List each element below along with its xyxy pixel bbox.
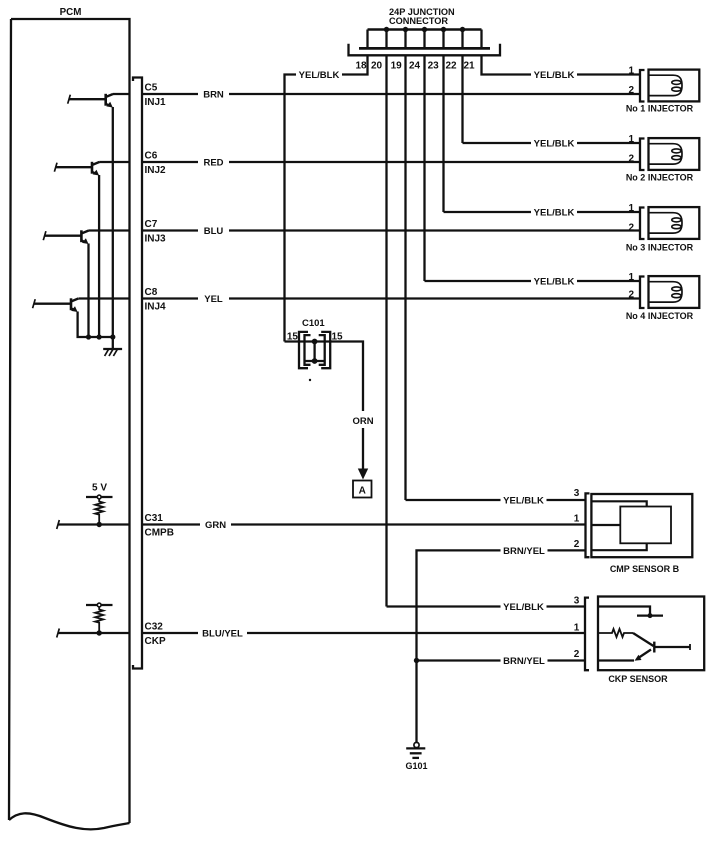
injector 4 body — [649, 276, 700, 308]
label CKP — [145, 636, 166, 647]
label 15 right — [332, 331, 344, 342]
label C7 — [145, 219, 158, 230]
wire Q3 emitter — [87, 244, 89, 338]
label 3 CMP — [574, 488, 580, 499]
wire pin19 drop — [404, 55, 406, 500]
wire pin23 to injector 3 pin 1 — [444, 211, 641, 213]
svg-text:24: 24 — [409, 61, 421, 72]
svg-text:C8: C8 — [145, 287, 158, 298]
injector 3 body — [649, 207, 700, 239]
svg-text:C6: C6 — [145, 151, 158, 162]
svg-text:INJ1: INJ1 — [145, 97, 167, 108]
wire pin24 drop — [423, 55, 425, 281]
svg-text:No 3 INJECTOR: No 3 INJECTOR — [626, 243, 694, 253]
label 1 CMP — [574, 514, 580, 525]
svg-text:23: 23 — [428, 61, 440, 72]
wire pin21 to injector 1 pin 1 — [482, 55, 641, 74]
CKP sensor connector bracket — [585, 598, 589, 671]
PCM box — [9, 19, 130, 829]
label C8 — [145, 287, 158, 298]
label ORN — [352, 416, 373, 427]
5V terminal circle C32 — [97, 603, 101, 607]
junction dot bus pin23 — [441, 27, 446, 32]
label INJ2 — [145, 165, 167, 176]
svg-text:No 1 INJECTOR: No 1 INJECTOR — [626, 104, 694, 114]
svg-text:22: 22 — [445, 61, 457, 72]
CKP pickup element — [598, 633, 690, 661]
CKP sensor body — [598, 597, 704, 671]
wire BLU/YEL to CKP sensor pin 1 — [142, 632, 585, 634]
wire emitter rail — [78, 312, 113, 338]
svg-text:2: 2 — [628, 85, 634, 96]
svg-text:C7: C7 — [145, 219, 158, 230]
24P connector stub pin20 — [385, 30, 387, 49]
label BRN/YEL CKP — [501, 654, 548, 668]
svg-text:CMPB: CMPB — [145, 528, 174, 539]
label C32 — [145, 622, 164, 633]
CMP sensor B body — [591, 494, 692, 557]
wire pin20 drop — [385, 55, 387, 606]
svg-text:20: 20 — [371, 61, 383, 72]
svg-text:1: 1 — [574, 514, 580, 525]
24P junction connector bus bar — [368, 28, 482, 30]
injector 1 connector bracket — [640, 70, 645, 102]
24P connector stub pin24 — [423, 30, 425, 49]
injector 1 pin labels — [628, 66, 634, 96]
label CMPB — [145, 528, 174, 539]
injector 2 body — [649, 138, 700, 170]
label YEL/BLK row4 — [531, 274, 577, 288]
svg-text:ORN: ORN — [352, 416, 373, 427]
wire C7 BLU to injector 3 pin 2 — [142, 229, 640, 231]
wire BRN/YEL to CMP sensor pin 2 — [417, 550, 586, 660]
wire pin19 to CMP sensor pin 3 — [406, 499, 586, 501]
label CMP SENSOR B — [610, 564, 680, 574]
label BRN/YEL CMP — [501, 543, 548, 557]
svg-text:CMP SENSOR B: CMP SENSOR B — [610, 564, 680, 574]
wire pin18 drop to YEL/BLK left — [285, 55, 368, 341]
ground G101 — [406, 742, 425, 758]
svg-text:2: 2 — [574, 539, 580, 550]
junction dot BRN/YEL CKP — [414, 658, 419, 663]
wire C101 entry — [285, 340, 315, 342]
svg-text:BLU/YEL: BLU/YEL — [202, 629, 243, 640]
svg-text:C101: C101 — [302, 318, 325, 329]
label YEL — [198, 292, 229, 306]
label 5 V — [92, 483, 107, 494]
tick C31 left — [57, 520, 60, 529]
svg-text:1: 1 — [628, 272, 634, 283]
PCM connector bracket — [133, 78, 142, 669]
label No 3 INJECTOR — [626, 243, 694, 253]
wire pin22 drop — [461, 55, 463, 143]
connector C101 — [299, 332, 330, 368]
24P connector stub pin18 — [366, 30, 368, 49]
label 1 CKP — [574, 623, 580, 634]
label 2 CMP — [574, 539, 580, 550]
junction dot C101 bottom — [312, 358, 318, 364]
injector 4 pin labels — [628, 272, 634, 300]
wire GRN to CMP sensor pin 1 — [142, 523, 586, 525]
svg-text:19: 19 — [391, 61, 403, 72]
transistor Q4 — [33, 298, 79, 312]
svg-text:No 2 INJECTOR: No 2 INJECTOR — [626, 173, 694, 183]
svg-text:No 4 INJECTOR: No 4 INJECTOR — [626, 311, 694, 321]
wire BRN/YEL to CKP sensor pin 2 — [417, 659, 586, 661]
label No 4 INJECTOR — [626, 311, 694, 321]
wire C31 CMPB internal — [58, 523, 130, 525]
24P connector stub pin21 — [480, 30, 482, 49]
svg-text:3: 3 — [574, 596, 580, 607]
label No 2 INJECTOR — [626, 173, 694, 183]
wire C101 exit to A — [315, 342, 363, 412]
label A — [359, 485, 366, 496]
label pin 18 — [355, 61, 367, 72]
svg-text:1: 1 — [628, 134, 634, 145]
junction dot R2 to CKP wire — [97, 630, 102, 635]
label CKP SENSOR — [608, 674, 668, 684]
svg-text:YEL/BLK: YEL/BLK — [534, 70, 575, 81]
junction dot rail-Q1 — [110, 334, 115, 339]
svg-text:BRN/YEL: BRN/YEL — [503, 546, 545, 557]
label pin 22 — [445, 61, 457, 72]
svg-text:YEL/BLK: YEL/BLK — [534, 208, 575, 219]
svg-text:2: 2 — [628, 153, 634, 164]
svg-text:GRN: GRN — [205, 520, 226, 531]
label BLU — [198, 224, 229, 238]
injector 3 connector bracket — [640, 208, 645, 240]
label YEL/BLK row2 — [531, 136, 577, 150]
injector 4 connector bracket — [640, 277, 645, 309]
svg-text:BRN/YEL: BRN/YEL — [503, 656, 545, 667]
svg-text:2: 2 — [628, 289, 634, 300]
transistor Q2 — [54, 162, 99, 176]
label BLU/YEL — [198, 626, 247, 640]
junction dot rail-Q3 — [86, 334, 91, 339]
resistor R2 pullup C32 — [95, 607, 103, 633]
CKP coil resistor — [598, 629, 633, 637]
svg-text:YEL/BLK: YEL/BLK — [503, 496, 544, 507]
wire C7 collector segment — [89, 229, 130, 231]
wire Q2 emitter — [98, 175, 100, 337]
24P connector housing — [349, 44, 501, 56]
label pin 20 — [371, 61, 383, 72]
label RED — [198, 155, 229, 169]
CKP shield tap — [598, 607, 663, 619]
label C101 — [302, 318, 325, 329]
wire C5 collector segment — [113, 93, 130, 95]
svg-text:G101: G101 — [405, 761, 427, 771]
label INJ3 — [145, 234, 167, 245]
label YEL/BLK CKP — [501, 600, 547, 614]
wire pin23 drop — [442, 55, 444, 212]
label pin 23 — [428, 61, 440, 72]
tick C32 left — [57, 629, 60, 638]
PCM label — [60, 7, 82, 18]
wire C6 RED to injector 2 pin 2 — [142, 161, 640, 163]
24P connector stub pin19 — [404, 30, 406, 49]
junction dot rail-Q2 — [97, 334, 102, 339]
wire ORN to arrow A — [362, 428, 364, 469]
svg-text:INJ3: INJ3 — [145, 234, 167, 245]
wire Q1 emitter — [112, 107, 114, 337]
svg-text:2: 2 — [574, 649, 580, 660]
label YEL/BLK left — [296, 68, 342, 82]
24P connector stub pin23 — [442, 30, 444, 49]
wire pin20 to CKP sensor pin 3 — [387, 605, 586, 607]
wire C6 collector segment — [99, 161, 129, 163]
injector 3 pin labels — [628, 203, 634, 233]
junction dot bus pin22 — [460, 27, 465, 32]
label INJ4 — [145, 302, 167, 313]
label C6 — [145, 151, 158, 162]
CMP sensor connector bracket — [586, 493, 590, 557]
24P connector stub pin22 — [461, 30, 463, 49]
svg-text:1: 1 — [574, 623, 580, 634]
svg-text:PCM: PCM — [60, 7, 82, 18]
svg-text:C5: C5 — [145, 83, 158, 94]
transistor Q1 — [68, 94, 113, 108]
label BRN — [198, 87, 229, 101]
resistor R1 pullup C31 — [95, 499, 103, 524]
label 3 CKP — [574, 596, 580, 607]
injector 1 body — [649, 70, 700, 102]
label pin 24 — [409, 61, 421, 72]
svg-text:RED: RED — [203, 158, 223, 169]
label YEL/BLK row3 — [531, 205, 577, 219]
arrowhead to A — [358, 469, 368, 480]
svg-text:A: A — [359, 485, 366, 496]
junction dot bus pin24 — [422, 27, 427, 32]
svg-text:1: 1 — [628, 66, 634, 77]
svg-text:C31: C31 — [145, 513, 164, 524]
wire C8 YEL to injector 4 pin 2 — [142, 297, 640, 299]
svg-text:21: 21 — [463, 61, 475, 72]
svg-text:CKP: CKP — [145, 636, 166, 647]
ground PCM internal — [103, 337, 122, 356]
injector 2 pin labels — [628, 134, 634, 164]
junction dot C101 top — [312, 339, 318, 345]
svg-text:3: 3 — [574, 488, 580, 499]
wire pin22 to injector 2 pin 1 — [463, 142, 641, 144]
label 24P JUNCTION CONNECTOR — [389, 7, 455, 26]
svg-text:YEL: YEL — [204, 294, 223, 305]
wire to ground G101 — [415, 661, 417, 743]
label pin 19 — [391, 61, 403, 72]
label GRN — [200, 518, 231, 532]
label pin 21 — [463, 61, 475, 72]
wire C5 BRN to injector 1 pin 2 — [142, 93, 640, 95]
svg-text:INJ4: INJ4 — [145, 302, 167, 313]
svg-text:BLU: BLU — [204, 226, 224, 237]
svg-text:BRN: BRN — [203, 90, 224, 101]
label No 1 INJECTOR — [626, 104, 694, 114]
label 15 left — [287, 331, 299, 342]
svg-text:INJ2: INJ2 — [145, 165, 167, 176]
svg-text:CONNECTOR: CONNECTOR — [389, 16, 448, 26]
svg-text:5 V: 5 V — [92, 483, 107, 494]
box A — [353, 481, 372, 498]
svg-text:C32: C32 — [145, 622, 164, 633]
junction dot R1 to CMPB wire — [97, 522, 102, 527]
label 2 CKP — [574, 649, 580, 660]
svg-text:YEL/BLK: YEL/BLK — [534, 139, 575, 150]
5V rail C31 — [86, 496, 113, 498]
stray mark — [309, 379, 311, 381]
label INJ1 — [145, 97, 167, 108]
label YEL/BLK CMP — [501, 493, 547, 507]
junction dot bus pin20 — [384, 27, 389, 32]
label YEL/BLK row1 — [531, 68, 577, 82]
svg-text:18: 18 — [355, 61, 367, 72]
5V terminal circle C31 — [97, 495, 101, 499]
svg-text:YEL/BLK: YEL/BLK — [534, 277, 575, 288]
junction dot bus pin19 — [403, 27, 408, 32]
svg-text:1: 1 — [628, 203, 634, 214]
transistor Q3 — [43, 230, 88, 244]
5V rail C32 — [86, 604, 113, 606]
wire C8 collector segment — [78, 297, 129, 299]
label C5 — [145, 83, 158, 94]
wire pin24 to injector 4 pin 1 — [425, 280, 641, 282]
label C31 — [145, 513, 164, 524]
label G101 — [405, 761, 427, 771]
wire C32 CKP internal — [58, 632, 130, 634]
svg-text:2: 2 — [628, 222, 634, 233]
svg-text:YEL/BLK: YEL/BLK — [503, 602, 544, 613]
injector 2 connector bracket — [640, 139, 645, 171]
svg-text:CKP SENSOR: CKP SENSOR — [608, 674, 668, 684]
svg-text:YEL/BLK: YEL/BLK — [299, 70, 340, 81]
